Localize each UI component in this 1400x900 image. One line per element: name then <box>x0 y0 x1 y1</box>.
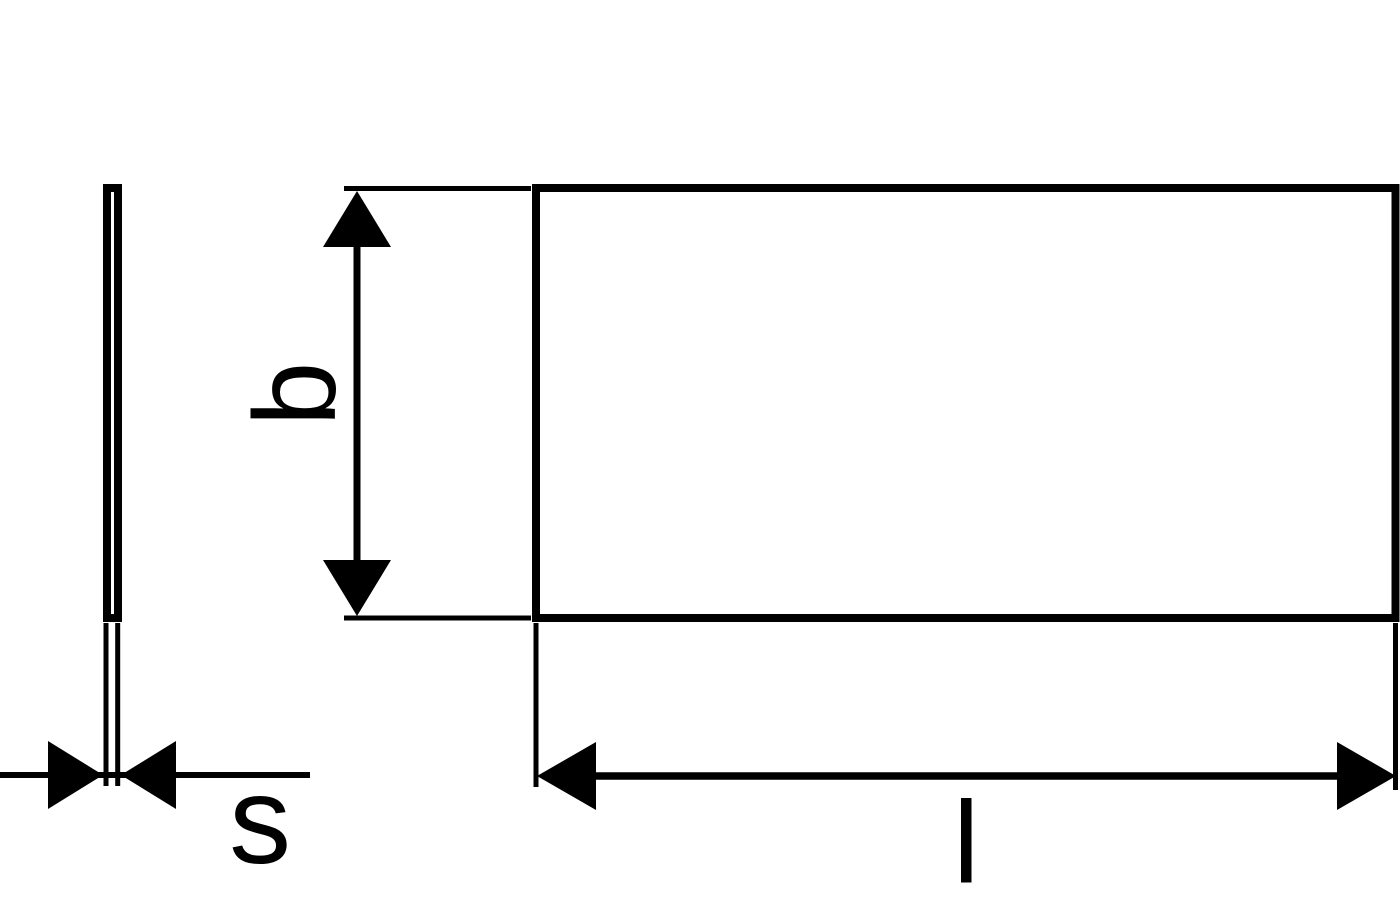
svg-text:b: b <box>230 362 360 427</box>
dimension s: middle segment between extension lines <box>98 772 126 778</box>
extension line left face of plate <box>104 623 109 786</box>
dimension b: top arrowhead <box>323 191 391 247</box>
dimension l: right extension line <box>1393 623 1398 790</box>
sheet front view rectangle <box>536 188 1396 618</box>
dimension l: left arrowhead <box>537 742 596 810</box>
svg-text:s: s <box>229 752 291 890</box>
dimension s: left arrowhead <box>48 741 103 809</box>
dimension l: left extension line <box>534 623 539 787</box>
dimension l: horizontal dimension line <box>550 772 1385 780</box>
dimension b: bottom arrowhead <box>323 560 391 616</box>
label l <box>961 798 972 883</box>
dimension b: bottom extension line <box>344 616 531 621</box>
dimension b: top extension line <box>344 186 531 191</box>
sheet edge view (thin plate, side view) <box>107 188 118 618</box>
extension line right face of plate <box>115 623 120 786</box>
dimension l: right arrowhead <box>1337 742 1396 810</box>
dimension s: left leader line <box>0 772 50 778</box>
dimension b: vertical dimension line <box>354 200 361 606</box>
dimension s: right arrowhead <box>121 741 176 809</box>
dimension s: right leader line <box>174 772 310 778</box>
